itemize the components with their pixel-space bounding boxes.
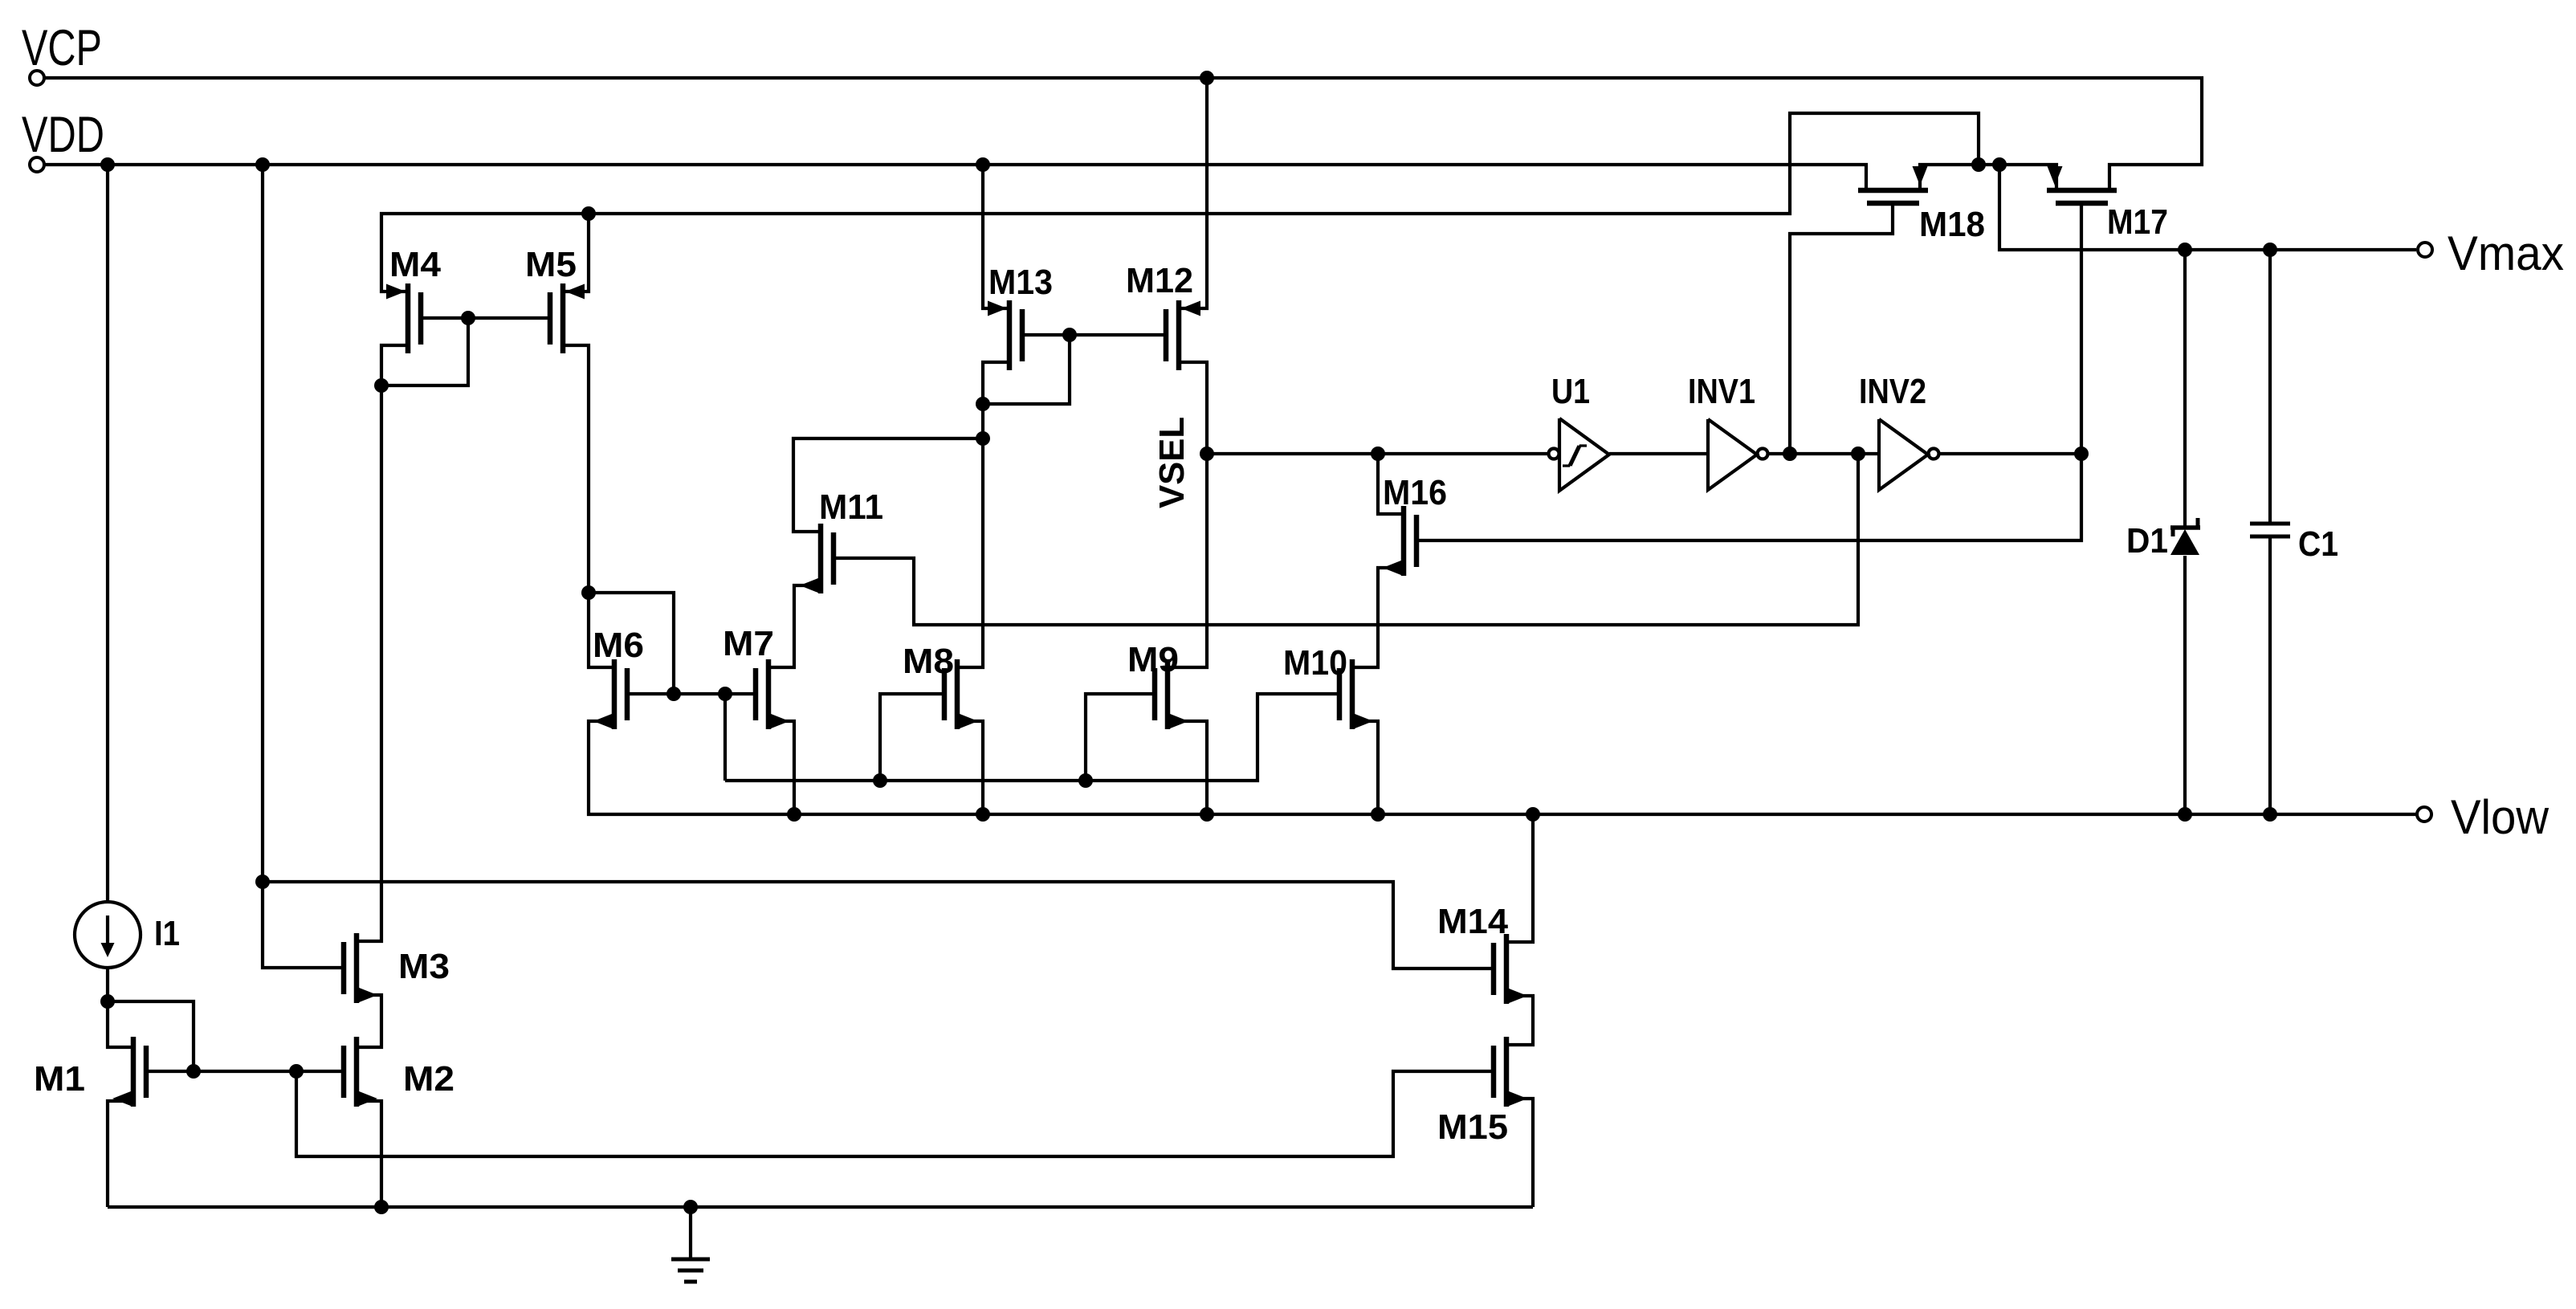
junction M7 gate — [718, 687, 732, 701]
svg-text:M4: M4 — [389, 245, 442, 284]
ground symbol — [671, 1207, 710, 1282]
wire Vmax drop — [1999, 165, 2416, 250]
junction D1 top — [2178, 243, 2192, 257]
diode D1 — [2170, 518, 2200, 555]
svg-text:Vlow: Vlow — [2451, 790, 2550, 844]
wire INV2 out to M17 gate — [1940, 452, 2081, 455]
junction M14 drain on Vlow — [1526, 807, 1540, 822]
wire M6 source to Vlow line — [589, 721, 2417, 814]
wire M16 drain — [1378, 454, 1404, 514]
wire VCP to M12 source — [1179, 78, 1207, 308]
junction M1 drain node — [100, 994, 115, 1009]
svg-text:M5: M5 — [525, 245, 577, 284]
wire VCP rail — [44, 78, 2202, 190]
transistor M12 — [1166, 300, 1200, 370]
wire M1-M2 gate line — [146, 1070, 344, 1073]
wire M13-M12 gate line — [1022, 333, 1166, 336]
svg-text:M3: M3 — [398, 947, 450, 986]
transistor M3 — [344, 933, 377, 1003]
wire Vmax to C1 — [2268, 250, 2272, 524]
wire M6 drain — [589, 593, 614, 667]
wire M4 gate to M5 gate — [421, 316, 550, 320]
wire M18 drain lead — [1920, 165, 2056, 190]
junction VDD-M3 — [255, 157, 270, 172]
inverter INV1 — [1708, 419, 1768, 490]
transistor M1 — [112, 1037, 146, 1107]
svg-text:VDD: VDD — [22, 107, 104, 163]
junction D1 bottom — [2178, 807, 2192, 822]
wire M2 gate to M15 gate line — [296, 1071, 1494, 1156]
junction M2 gate — [289, 1064, 304, 1079]
transistor M8 — [944, 659, 978, 729]
svg-text:Vmax: Vmax — [2448, 226, 2564, 280]
wire I1 to M1 drain — [106, 968, 109, 1001]
wire M6 node to gate line — [589, 593, 674, 694]
junction M17 gate node — [2074, 447, 2089, 461]
terminal VCP — [30, 71, 44, 85]
svg-text:INV2: INV2 — [1859, 372, 1926, 411]
junction Vmax drop — [1992, 157, 2007, 172]
current source I1 — [75, 902, 141, 968]
transistor M15 — [1494, 1037, 1527, 1107]
junction M13 loop — [976, 397, 990, 411]
wire M9 gate — [1086, 694, 1155, 781]
schmitt trigger U1 — [1549, 418, 1610, 491]
svg-text:M17: M17 — [2107, 202, 2168, 242]
wire VDD to I1 — [106, 165, 109, 903]
wire INV1 out line — [1767, 452, 1879, 455]
junction VSEL node — [1200, 447, 1214, 461]
junction M7 source — [787, 807, 801, 822]
svg-text:D1: D1 — [2126, 521, 2168, 561]
wire M16 source to M10 drain — [1352, 568, 1404, 667]
wire M6-M7 gate line — [627, 692, 756, 695]
junction M5 source on rail — [581, 206, 596, 221]
wire M11 gate feedback — [834, 454, 1858, 625]
junction C1 top — [2263, 243, 2277, 257]
transistor M13 — [988, 300, 1022, 370]
svg-text:M15: M15 — [1437, 1107, 1508, 1147]
wire M11 drain — [793, 438, 983, 532]
inverter INV2 — [1879, 419, 1939, 490]
wire M4 source to Vmax rail — [381, 113, 1979, 292]
wire M11 source to M7 drain — [768, 585, 821, 667]
wire M9 source — [1168, 721, 1207, 814]
junction M8 source — [976, 807, 990, 822]
wire U1 out to INV1 — [1609, 452, 1708, 455]
terminal Vmax — [2418, 243, 2432, 257]
svg-text:I1: I1 — [154, 914, 180, 953]
wire M13 gate-drain loop — [983, 335, 1070, 404]
junction M8 gate on bus — [873, 773, 887, 788]
wire M4 drain to M3 drain — [357, 345, 408, 941]
junction M16 drain — [1371, 447, 1385, 461]
svg-text:M9: M9 — [1127, 640, 1179, 679]
junction M1 gate — [186, 1064, 201, 1079]
wire M10 source — [1352, 721, 1378, 814]
svg-text:M7: M7 — [723, 624, 774, 663]
svg-text:M14: M14 — [1437, 902, 1509, 941]
junction M11 branch — [976, 431, 990, 446]
transistor M9 — [1155, 659, 1188, 729]
wire M14 source to M15 drain — [1506, 996, 1533, 1045]
capacitor C1 — [2250, 524, 2290, 536]
svg-text:VSEL: VSEL — [1152, 417, 1192, 508]
svg-text:M8: M8 — [903, 642, 954, 681]
transistor M11 — [800, 524, 834, 593]
transistor M10 — [1339, 659, 1373, 729]
wire ground rail — [108, 1205, 1533, 1209]
svg-text:C1: C1 — [2298, 524, 2338, 564]
wire M8 source — [957, 721, 983, 814]
transistor M6 — [593, 659, 627, 729]
junction M18 gate node — [1783, 447, 1797, 461]
terminal VDD — [30, 157, 44, 172]
wire VSEL to U1 — [1207, 452, 1549, 455]
transistor M5 — [550, 283, 585, 353]
svg-text:M1: M1 — [34, 1059, 85, 1099]
wire M18 gate — [1790, 203, 1893, 454]
svg-text:M13: M13 — [988, 263, 1053, 302]
junction ground stub — [683, 1200, 698, 1214]
wire M1 diode loop — [108, 1001, 194, 1071]
transistor M2 — [344, 1037, 377, 1107]
junction M13 gate loop — [1062, 328, 1077, 342]
wire M7 source — [768, 721, 794, 814]
svg-text:M11: M11 — [819, 487, 883, 527]
terminal Vlow — [2417, 807, 2431, 822]
junction M4 drain — [374, 378, 389, 393]
junction M10 source — [1371, 807, 1385, 822]
wire VDD rail — [44, 165, 1866, 190]
junction M9 gate on bus — [1078, 773, 1093, 788]
wire M12 drain to M9 drain — [1168, 362, 1207, 667]
svg-text:M12: M12 — [1126, 261, 1193, 300]
wire M1 source — [108, 1101, 133, 1207]
wire M15 source — [1506, 1099, 1533, 1207]
wire M5 source — [563, 214, 589, 292]
svg-text:VCP: VCP — [22, 20, 102, 76]
wire M8 gate — [880, 694, 944, 781]
junction M2 source on ground — [374, 1200, 389, 1214]
junction M4 gate loop — [461, 311, 475, 325]
wire C1 to Vlow — [2268, 536, 2272, 814]
junction M6 node — [581, 585, 596, 600]
transistor M7 — [756, 659, 789, 729]
svg-text:M6: M6 — [593, 626, 644, 665]
svg-text:M18: M18 — [1919, 205, 1985, 244]
junction M9 source — [1200, 807, 1214, 822]
wire VDD to M3 gate — [263, 165, 344, 968]
wire VDD to M13 source — [983, 165, 1009, 308]
junction C1 bottom — [2263, 807, 2277, 822]
wire M7 gate drop — [723, 694, 727, 781]
wire M2 source — [357, 1101, 381, 1207]
junction M18 loop — [1971, 157, 1986, 172]
wire M16 gate line — [1416, 203, 2081, 540]
transistor M14 — [1494, 934, 1527, 1004]
svg-text:INV1: INV1 — [1688, 372, 1755, 411]
junction rail C — [255, 875, 270, 889]
svg-text:U1: U1 — [1551, 372, 1590, 411]
transistor M16 — [1383, 506, 1416, 576]
transistor M18 — [1858, 166, 1928, 203]
wire M14 drain — [1506, 814, 1533, 942]
wire M1 drain — [108, 1001, 133, 1047]
svg-text:M16: M16 — [1383, 473, 1447, 512]
wire M5 drain — [563, 345, 589, 593]
junction INV2 input node — [1851, 447, 1865, 461]
transistor M4 — [386, 283, 421, 353]
junction VDD-I1 — [100, 157, 115, 172]
wire M3 gate rail C — [263, 882, 1494, 968]
wire M13 drain chain — [957, 362, 1009, 667]
wire gate bus A — [725, 694, 1339, 781]
junction VCP-M12 — [1200, 71, 1214, 85]
wire D1 to Vlow — [2183, 556, 2187, 814]
junction VDD-M13 — [976, 157, 990, 172]
wire Vmax to D1 — [2183, 250, 2187, 528]
svg-text:M10: M10 — [1283, 643, 1347, 683]
wire M4 gate-drain loop — [381, 318, 468, 385]
wire M3 source to M2 drain — [357, 995, 381, 1047]
svg-text:M2: M2 — [403, 1059, 454, 1099]
junction M6 gate line — [666, 687, 681, 701]
transistor M17 — [2047, 166, 2117, 203]
